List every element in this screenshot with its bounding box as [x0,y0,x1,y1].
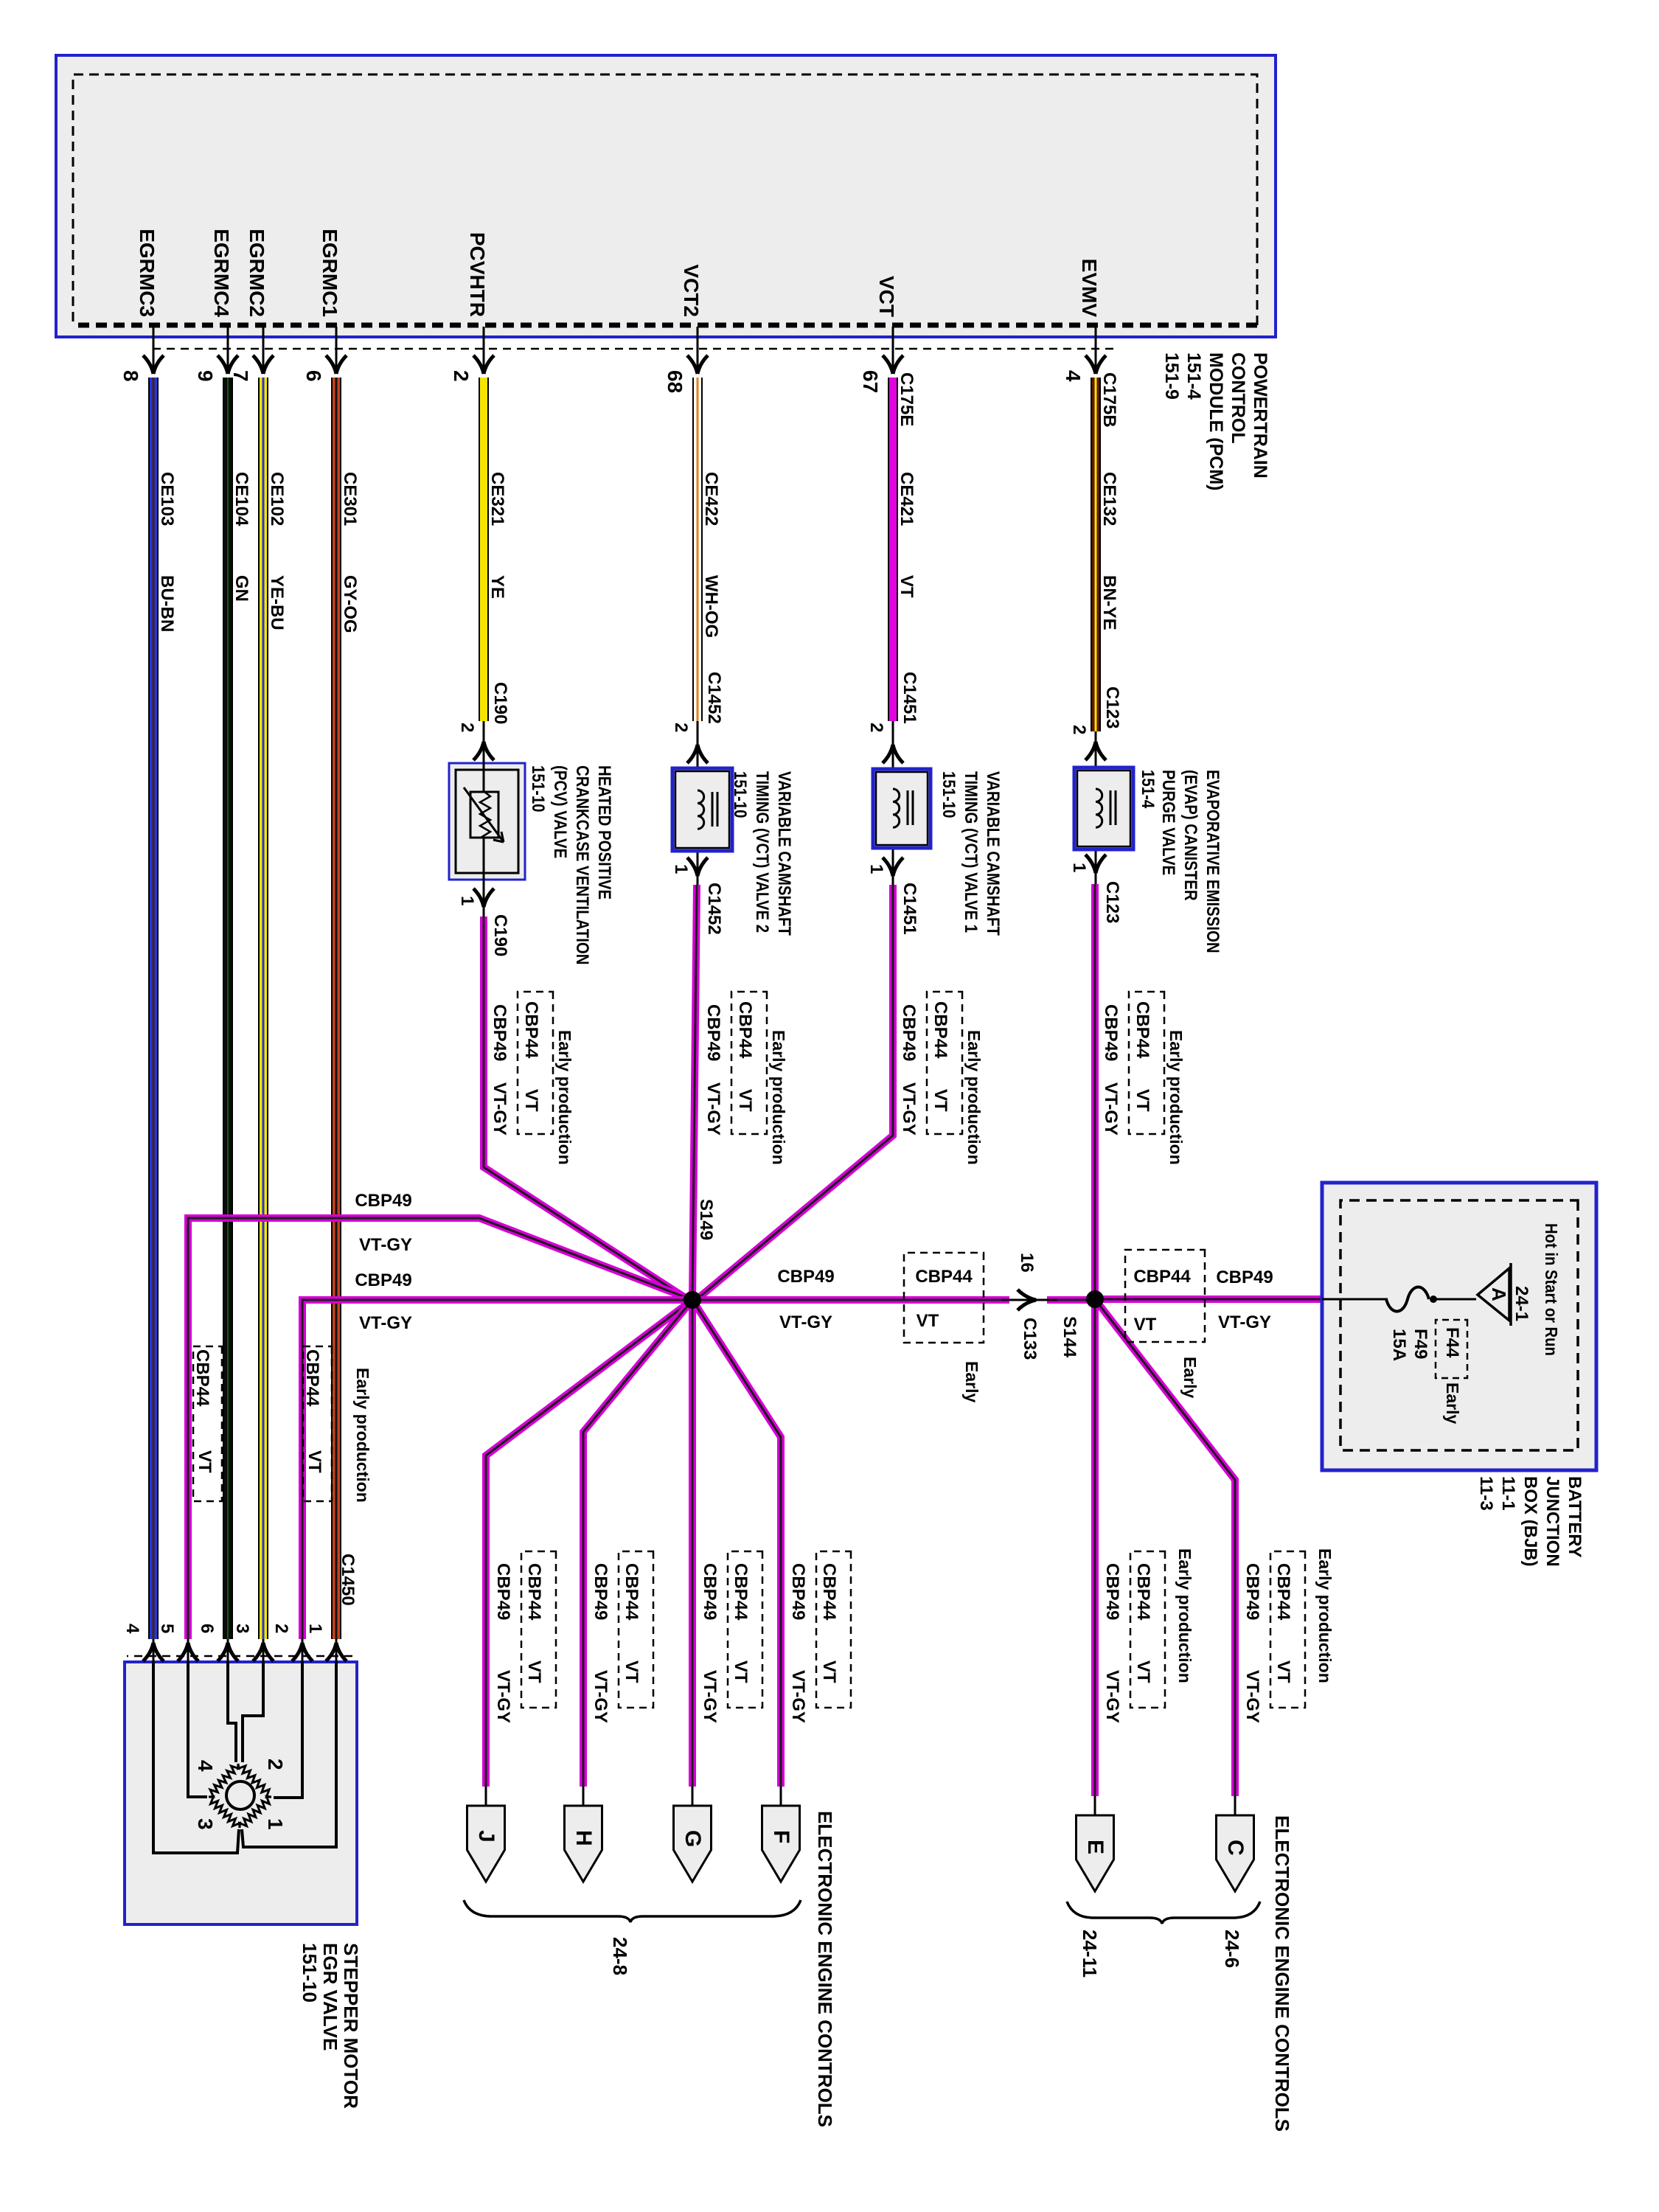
label VT PCV branch [521,1089,540,1112]
stepper motor terminal 3 [194,1818,216,1830]
pin 2 EVAP [1069,725,1088,734]
PCM connector face bold dashed line [73,323,1257,328]
VCT wire stub [892,721,894,885]
wire CE421 VT (VCT) [888,378,898,721]
label Early production PCV branch [555,1030,574,1165]
label VT EGR pin5 run [195,1450,214,1473]
label VT-GY PCV branch [490,1082,509,1135]
connector G [674,1787,712,1882]
PCM pin VCT2 stub and arrow [687,327,708,374]
stepper pin number 4 [122,1624,142,1633]
label A in triangle [1489,1287,1509,1301]
connector label C175E [897,372,916,426]
label CBP44 on S149-S144 run [915,1267,972,1287]
label C1451 pin2 [900,672,919,724]
stepper pin 2 stub arrow [292,1639,313,1662]
wire CBP49 VT-GY S149 to F [692,1300,781,1787]
stepper EGR valve box [125,1662,357,1924]
EVAP valve label 151-4 [1138,770,1157,808]
label VT C branch [1273,1660,1293,1683]
dashed box F44 [1436,1320,1467,1378]
label CBP44 H branch [622,1563,641,1620]
label VT on S144-BJB run [1134,1315,1157,1335]
stepper pin number 1 [305,1624,324,1633]
label VT-GY EGR pin5 run [359,1236,412,1255]
dashed box CBP44 on S149-S144 run [904,1253,984,1343]
PCM pin name EGRMC1 [319,170,341,317]
connector F [762,1787,800,1882]
EVAP connector arrow pin2 [1096,742,1106,760]
circuit label CE132 [1099,472,1119,526]
splice node S144 [1086,1290,1104,1308]
circuit label CE321 [487,472,507,526]
connector letter H [571,1830,595,1846]
label CBP44 EVMV branch [1133,1001,1152,1058]
label CBP44 G branch [731,1563,750,1620]
PCM pin EVMV stub and arrow [1085,327,1106,374]
dashed box CBP44 H branch [619,1551,653,1708]
VCT2 valve label [728,771,795,936]
PCV valve box [449,763,525,880]
connector label C175B [1099,372,1119,428]
wire CBP49 VT-GY S149 to EGR pin2 run [302,1300,692,1639]
VCT valve 1 box [873,769,931,848]
wire color label WH-OG (CE422) [701,575,720,638]
wire CBP49 VT-GY S144 to C [1095,1299,1235,1796]
EVAP valve label [1157,770,1223,953]
label CBP49 E branch [1102,1563,1121,1620]
label VT-GY F branch [788,1670,807,1723]
label Early production VCT2 branch [769,1030,787,1165]
connector letter J [474,1830,498,1843]
wire CBP49 VT-GY S149 to H [583,1300,692,1787]
label C1452 pin2 [704,672,723,724]
wire CE132 BN-YE (EVMV) [1091,378,1101,731]
label Early production EVMV branch [1166,1030,1185,1165]
C133 in-line connector arrow [1018,1290,1036,1300]
PCM pin EGRMC4 stub and arrow [218,327,238,374]
label VT E branch [1133,1660,1152,1683]
PCM module box outline [56,55,1276,337]
connector C [1217,1796,1254,1891]
wire CBP49 VT-GY S144 to S149 lower [692,1299,1009,1301]
pin number 67 for VCT [859,370,881,393]
VCT connector arrow pin2 [893,745,903,763]
label Early production C branch [1315,1548,1334,1683]
label CBP44 F branch [819,1563,838,1620]
pin 1 VCT2 [671,864,690,874]
VCT valve 1 box coil symbol [893,789,913,827]
label CBP49 J branch [493,1563,512,1620]
label CBP49 EVMV branch [1101,1004,1120,1061]
label VT VCT2 branch [735,1089,754,1112]
VCT valve 2 box coil symbol [698,790,717,829]
wire CBP49 VT-GY S149 to G [692,1300,693,1787]
label VT-GY S149-S144 run [779,1313,832,1332]
label CBP44 VCT branch [931,1001,950,1058]
label CBP44 PCV branch [521,1001,540,1058]
label Early (F44) [1443,1382,1461,1424]
label VT H branch [622,1660,641,1683]
wire CBP49 VT-GY S144 to E [1094,1299,1096,1796]
BJB box outline [1322,1183,1596,1470]
label C1452 pin1 [704,883,723,935]
stepper internal wire pin2 [274,1662,302,1798]
wire color label BN-YE (CE132) [1099,575,1119,630]
wire CE102 YE-BU (EGRMC2) [258,378,268,1639]
stepper pin 1 stub arrow [326,1639,347,1662]
circuit label CE102 [267,472,286,526]
pin number 4 for EVMV [1062,370,1084,382]
stepper pin number 2 [271,1624,291,1633]
fuse F49 symbol [1386,1287,1429,1312]
dashed box CBP44 F branch [816,1551,851,1708]
stepper internal wire pin6 [228,1662,236,1762]
circuit label CE422 [701,472,720,526]
VCT2 connector arrow pin1 [698,858,708,876]
PCM pin name EGRMC3 [136,170,158,317]
label VT-GY C branch [1242,1670,1262,1723]
label 24-6 [1222,1930,1242,1968]
pin 1 EVAP [1069,863,1088,872]
PCM pin VCT stub and arrow [883,327,903,374]
stepper pin 3 stub arrow [253,1639,274,1662]
pin 1 PCV [457,896,476,905]
wire CE422 WH-OG (VCT2) [692,378,703,721]
wire CBP49 VT-GY VCT2 to S149 [692,885,697,1300]
label CBP44 VCT2 branch [735,1001,754,1058]
dashed box CBP44 EGR pin2 run [303,1346,332,1501]
PCM pin name EGRMC4 [210,170,232,317]
stepper motor EGR valve label [299,1943,361,2109]
label CBP49 PCV branch [490,1004,509,1061]
label CBP49 VCT branch [899,1004,918,1061]
PCM pin name VCT [875,170,897,317]
EVAP canister purge valve box coil symbol [1096,789,1116,827]
connector H [565,1787,602,1882]
EVAP wire stub [1095,731,1097,884]
dashed box CBP44 VCT2 branch [731,992,767,1134]
label ELECTRONIC ENGINE CONTROLS bottom [815,1811,835,2127]
label F44 [1442,1327,1461,1357]
label VT-GY E branch [1102,1670,1121,1723]
PCV valve label [526,765,615,964]
PCM inner dashed border [73,74,1257,325]
BJB label [1475,1476,1585,1567]
label CBP49 C branch [1242,1563,1262,1620]
stepper motor windings [209,1764,271,1828]
brace E C group [1067,1902,1260,1924]
VCT valve 2 box [672,768,732,851]
pin number 2 for PCVHTR [450,370,472,382]
pin number 68 for VCT2 [664,370,686,393]
label CBP44 C branch [1273,1563,1293,1620]
PCV wire stub through box [483,721,485,917]
label VT-GY EVMV branch [1101,1082,1120,1135]
label C190 pin2 [490,682,509,724]
EVAP connector arrow pin1 [1096,855,1106,873]
label CBP49 VCT2 branch [703,1004,723,1061]
label VT VCT branch [931,1089,950,1112]
wire CBP49 VT-GY EVAP to S144 [1094,884,1096,1299]
stepper internal wire pin1 [242,1662,336,1847]
stepper pin 4 stub arrow [143,1639,164,1662]
pin number 7 for EGRMC2 [229,370,251,382]
wire CBP49 VT-GY S144 to BJB [1095,1298,1322,1300]
power triangle A 24-1 [1478,1263,1511,1326]
wire CE321 YE (PCVHTR) [479,378,489,721]
wire CBP49 VT-GY S149 to J [486,1300,692,1787]
label VT EGR pin2 run [305,1450,324,1473]
label C123 pin2 [1102,686,1121,728]
dashed box CBP44 E branch [1130,1551,1165,1708]
label CBP44 EGR pin5 run [192,1349,212,1406]
label 24-8 [610,1937,630,1975]
stepper internal wire pin5 [188,1662,207,1797]
label Early production VCT branch [964,1030,983,1165]
wire CBP49 VT-GY S149 to EGR pin5 run [188,1218,692,1639]
label CBP49 EGR pin5 run [355,1192,411,1211]
circuit label CE421 [897,472,916,526]
connector J [467,1787,505,1882]
label Early on C diagonal [1180,1357,1199,1398]
VCT valve label [937,771,1004,936]
VCT2 connector arrow pin2 [698,745,708,763]
pin 2 PCV [457,723,476,732]
label CBP49 S144-BJB run [1216,1268,1273,1287]
dashed box CBP44 G branch [728,1551,762,1708]
splice node S149 [684,1291,701,1309]
pin number 6 for EGRMC1 [302,370,324,382]
label CBP49 H branch [591,1563,610,1620]
EVAP canister purge valve box [1074,768,1133,849]
pin 2 VCT [866,723,886,732]
stepper motor terminal 4 [194,1760,216,1772]
label Early production EGR runs [353,1368,372,1503]
label VT-GY J branch [493,1670,512,1723]
PCM pin name VCT2 [680,170,702,317]
wire CE103 BU-BN (EGRMC3) [148,378,159,1639]
label 24-11 [1079,1930,1100,1978]
label VT EVMV branch [1133,1089,1152,1112]
wire color label VT (CE421) [897,575,916,598]
BJB inner dashed border [1340,1200,1578,1450]
label VT-GY VCT branch [899,1082,918,1135]
PCM pin name PCVHTR [466,170,488,317]
stepper motor terminal 2 [264,1759,286,1770]
stepper internal wire pin3 [243,1662,263,1762]
label CBP44 EGR pin2 run [302,1349,321,1406]
label C133 [1020,1318,1039,1360]
C1450 connector dashed line [127,1655,352,1658]
wire CE301 GY-OG (EGRMC1) [331,378,341,1639]
label 16 (C133 pin) [1017,1253,1036,1273]
label S144 [1060,1316,1079,1357]
label CBP49 F branch [788,1563,807,1620]
label Early production E branch [1175,1548,1194,1683]
label Hot in Start or Run [1542,1223,1560,1356]
PCV connector arrow pin2 [484,742,494,760]
PCM pin EGRMC2 stub and arrow [253,327,274,374]
label VT J branch [524,1660,543,1683]
label CBP44 J branch [524,1563,543,1620]
PCV heater resistor symbol [464,787,504,842]
pin number 9 for EGRMC4 [194,370,216,382]
VCT connector arrow pin1 [893,858,903,876]
label F49 [1411,1329,1430,1359]
label 15A [1389,1329,1408,1361]
label VT-GY EGR pin2 run [359,1314,412,1333]
connector letter F [769,1830,793,1843]
label C1450 [338,1554,357,1606]
stepper pin 6 stub arrow [218,1639,238,1662]
connector letter G [681,1830,704,1847]
label CBP44 on S144-BJB run [1133,1267,1190,1287]
stepper pin number 6 [197,1624,216,1633]
pin 1 VCT [866,864,886,874]
connector letter E [1083,1840,1107,1854]
C175 in-line connector dashed line [150,348,1113,350]
circuit label CE301 [340,472,359,526]
dashed box CBP44 EGR pin5 run [193,1346,222,1501]
wire CBP49 VT-GY PCV to S149 [484,917,689,1300]
label CBP49 G branch [700,1563,719,1620]
label VT-GY S144-BJB run [1218,1313,1271,1332]
label VT on S149-S144 run [917,1312,939,1331]
wire color label YE (CE321) [487,575,507,599]
label VT-GY VCT2 branch [703,1082,723,1135]
label VT F branch [819,1660,838,1683]
dashed box CBP44 EVMV branch [1129,992,1164,1134]
label S149 [696,1199,715,1240]
stepper motor circle [226,1781,254,1809]
dashed box CBP44 PCV branch [518,992,553,1134]
label C190 pin1 [490,914,509,956]
connector E [1077,1796,1114,1891]
dashed box CBP44 C branch [1270,1551,1305,1708]
BJB internal wire [1322,1298,1388,1301]
label ELECTRONIC ENGINE CONTROLS right [1272,1815,1293,2132]
label C1451 pin1 [900,883,919,935]
pin number 8 for EGRMC3 [119,370,142,382]
circuit label CE104 [232,472,251,526]
PCM pin PCVHTR stub and arrow [473,327,494,374]
label VT-GY G branch [700,1670,719,1723]
wire CE104 GN (EGRMC4) [223,378,233,1639]
stepper internal wire pin4 [153,1662,239,1853]
PCM pin EGRMC1 stub and arrow [326,327,347,374]
dashed box CBP44 VCT branch [927,992,962,1134]
wire color label GY-OG (CE301) [340,575,359,633]
wire color label GN (CE104) [232,575,251,602]
wire CBP49 VT-GY S144 to S149 upper [1047,1299,1095,1301]
label CBP44 E branch [1133,1563,1152,1620]
dashed box CBP44 J branch [521,1551,556,1708]
brace 24-8 group [464,1900,801,1922]
label VT-GY H branch [591,1670,610,1723]
wire CBP49 VT-GY VCT to S149 [696,885,893,1300]
PCV connector arrow pin1 [484,888,494,907]
label CBP49 S149-S144 run [777,1267,834,1287]
stepper motor terminal 1 [264,1818,286,1830]
label Early below CBP44 box [962,1361,981,1402]
circuit label CE103 [157,472,176,526]
PCM title label [1161,352,1271,490]
PCM pin name EVMV [1078,170,1100,317]
connector letter C [1223,1840,1247,1856]
stepper pin 5 stub arrow [178,1639,198,1662]
stepper pin number 3 [232,1624,251,1633]
stepper pin number 5 [157,1624,176,1633]
VCT2 wire stub [697,721,699,885]
PCM pin name EGRMC2 [246,170,268,317]
label VT G branch [731,1660,750,1683]
C133 in-line connector gap line [1001,1299,1057,1301]
wire color label YE-BU (CE102) [267,575,286,630]
label CBP49 EGR pin2 run [355,1271,411,1290]
dashed box CBP44 on S144-BJB run [1125,1250,1205,1342]
label 24-1 [1512,1286,1531,1321]
wire color label BU-BN (CE103) [157,575,176,632]
PCM pin EGRMC3 stub and arrow [143,327,164,374]
pin 2 VCT2 [671,723,690,732]
label C123 pin1 [1102,881,1121,923]
